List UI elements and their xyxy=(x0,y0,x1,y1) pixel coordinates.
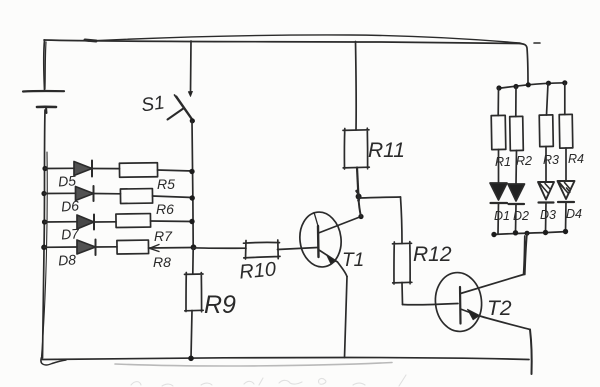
node bbus1 xyxy=(491,232,496,237)
node row1 left xyxy=(42,166,47,171)
resistor R12 xyxy=(393,242,412,284)
node bus feed xyxy=(526,82,531,87)
diode D3 xyxy=(538,182,554,200)
node row2 left xyxy=(41,191,46,196)
wire D4 stub xyxy=(565,202,568,232)
diode D6 xyxy=(76,187,94,201)
wire row2 right xyxy=(153,196,193,198)
wire right rail (switch to rows) xyxy=(192,121,193,247)
wire row3 right xyxy=(151,220,193,223)
wire T2 collector up xyxy=(524,236,525,275)
wire R1 stub xyxy=(497,88,499,116)
diode D8 xyxy=(77,240,96,254)
wire row4 right with arrow xyxy=(149,247,194,250)
wire R3 stub xyxy=(547,83,549,115)
resistor R10 xyxy=(244,240,281,259)
wire R4-D4 stub xyxy=(565,148,567,181)
wire R2 stub xyxy=(515,87,517,117)
svg-text:R9: R9 xyxy=(204,291,236,319)
LED bottom bus xyxy=(494,232,567,235)
node bus4 xyxy=(562,80,567,85)
diode D4 xyxy=(558,181,575,199)
svg-text:R8: R8 xyxy=(153,254,171,270)
battery B1 xyxy=(23,90,64,93)
node S1 bottom xyxy=(190,118,195,123)
transistor T1 xyxy=(297,210,344,270)
diode D7 xyxy=(77,215,94,229)
node bbus4 xyxy=(563,229,568,234)
resistor R4 xyxy=(559,114,573,148)
svg-text:R6: R6 xyxy=(156,201,174,217)
resistor R8 xyxy=(117,240,149,254)
resistor R1 xyxy=(491,115,506,149)
wire row3 mid xyxy=(94,221,116,223)
wire junction to R12 xyxy=(359,197,401,198)
resistor R7 xyxy=(116,214,151,228)
svg-text:R5: R5 xyxy=(157,176,175,192)
wire row1 mid xyxy=(92,168,120,170)
wire top rail xyxy=(44,40,521,44)
wire D3 stub xyxy=(545,203,548,233)
svg-text:S1: S1 xyxy=(140,92,166,116)
node T1 collector junction xyxy=(358,214,363,219)
wire row1 right xyxy=(158,170,193,171)
diode D2 xyxy=(508,184,525,201)
wire R12 to T2 base xyxy=(403,304,459,305)
svg-text:D5: D5 xyxy=(58,172,77,189)
wire D2 stub xyxy=(515,204,518,233)
svg-text:R11: R11 xyxy=(368,139,405,162)
wire left rail upper xyxy=(43,40,46,90)
wire R2-D2 stub xyxy=(515,151,518,185)
wire D1 stub xyxy=(497,203,500,234)
node bbus3 xyxy=(543,230,548,235)
diode D5 xyxy=(74,162,92,176)
wire bus down to T2 collector xyxy=(525,234,527,275)
wire R3-D3 stub xyxy=(545,147,547,183)
node row3 left xyxy=(42,219,47,224)
switch S1 xyxy=(190,41,193,93)
wire top rail to LED bus xyxy=(520,44,528,85)
bottom-left corner loop xyxy=(41,356,66,365)
node row2 right xyxy=(190,195,195,200)
node R11/R12 junction xyxy=(356,194,362,200)
resistor R2 xyxy=(510,116,524,150)
resistor R9 xyxy=(185,273,204,312)
svg-text:R10: R10 xyxy=(238,258,276,283)
wire R9 bottom xyxy=(191,311,192,359)
svg-text:D3: D3 xyxy=(540,208,556,222)
svg-text:D6: D6 xyxy=(61,197,80,214)
wire R10 to T1 base xyxy=(278,248,318,250)
svg-text:T1: T1 xyxy=(342,250,364,271)
svg-text:D4: D4 xyxy=(566,207,582,221)
node row4 right xyxy=(191,244,197,250)
wire row4 xyxy=(44,246,77,248)
wire row4 mid xyxy=(96,246,118,248)
wire bottom rail xyxy=(42,358,529,360)
faint handwriting at bottom edge xyxy=(131,375,406,386)
node bus3 xyxy=(546,81,551,86)
transistor T2 xyxy=(433,270,485,333)
wire T2 emitter down xyxy=(530,330,532,375)
resistor R3 xyxy=(539,115,553,147)
node bus2 xyxy=(513,84,518,89)
wire left rail lower xyxy=(43,110,46,358)
wire R1-D1 stub xyxy=(498,150,500,184)
wire R9 top xyxy=(192,248,194,275)
svg-text:R7: R7 xyxy=(154,228,173,244)
svg-text:R1: R1 xyxy=(495,155,511,169)
wire row3 xyxy=(45,221,78,223)
svg-text:R12: R12 xyxy=(413,243,452,266)
resistor R6 xyxy=(120,189,152,204)
node bus1 xyxy=(496,85,501,90)
svg-text:R2: R2 xyxy=(516,154,532,168)
wire row1 xyxy=(45,167,74,169)
svg-text:T2: T2 xyxy=(487,297,512,320)
wire T1 collector up xyxy=(359,198,362,217)
wire R12 bottom xyxy=(401,283,404,305)
wire R11 top xyxy=(355,42,358,131)
wire R11 bottom xyxy=(357,168,359,198)
faint pencil stroke under bottom rail xyxy=(115,363,392,366)
wire row2 mid xyxy=(94,193,121,195)
svg-text:D1: D1 xyxy=(494,209,510,223)
resistor R11 xyxy=(343,128,369,169)
wire T1 emitter down xyxy=(345,277,348,358)
node bbus2 xyxy=(513,230,518,235)
svg-text:R4: R4 xyxy=(568,152,584,166)
node bbus feed xyxy=(525,231,530,236)
LED top bus xyxy=(498,83,566,89)
wire R4 stub xyxy=(564,83,566,115)
node row3 right xyxy=(189,219,194,224)
wire row4 to R10 xyxy=(194,247,247,249)
wire row2 xyxy=(44,192,76,194)
node R9 bottom xyxy=(188,356,194,362)
svg-text:D8: D8 xyxy=(58,251,77,268)
node row1 right xyxy=(189,169,194,174)
diode D1 xyxy=(490,183,507,200)
node row4 left xyxy=(41,245,47,251)
resistor R5 xyxy=(119,163,157,178)
